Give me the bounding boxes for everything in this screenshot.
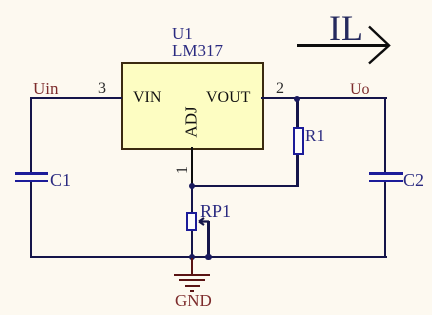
pin label VIN bbox=[133, 90, 161, 106]
capacitor C2 top plate bbox=[369, 172, 403, 175]
wire: bottom rail bbox=[30, 256, 387, 259]
label R1 bbox=[305, 127, 325, 144]
IL current label bbox=[329, 10, 363, 46]
resistor R1 bbox=[293, 127, 304, 155]
value label LM317 bbox=[172, 42, 223, 59]
label U1 bbox=[172, 25, 193, 42]
op-amp U1 (LM317 regulator body) bbox=[121, 62, 264, 150]
node Uo label bbox=[350, 82, 370, 98]
wiper arrow of RP1 bbox=[195, 214, 213, 226]
potentiometer RP1 body bbox=[186, 212, 197, 231]
ground bar 1 bbox=[174, 274, 211, 276]
pin wire: ADJ pin from IC down to node bbox=[191, 147, 193, 186]
junction dot at pin 2 bbox=[294, 96, 300, 102]
wire: right vertical (Uo down to C2) bbox=[384, 97, 386, 173]
junction dot rail right (wiper) bbox=[205, 254, 211, 260]
ground bar 4 bbox=[190, 290, 194, 292]
pin label VOUT bbox=[206, 90, 250, 106]
junction dot at ADJ node bbox=[189, 183, 195, 189]
node Uin label bbox=[33, 80, 59, 97]
pin number 3 bbox=[98, 81, 106, 97]
IL arrow head bbox=[366, 24, 392, 66]
wire: C2 bottom to rail bbox=[384, 182, 386, 257]
ground bar 2 bbox=[179, 279, 206, 281]
capacitor C1 bottom plate bbox=[15, 180, 49, 183]
wire: left vertical (Uin down to C1 top) bbox=[30, 97, 32, 173]
wire: wiper down to rail bbox=[207, 221, 209, 257]
capacitor C2 bottom plate bbox=[369, 180, 403, 183]
pin label ADJ (rotated) bbox=[182, 106, 199, 137]
wire: Uin to pin 3 bbox=[30, 97, 122, 99]
label RP1 bbox=[200, 202, 231, 220]
wire: pin2 junction down to R1 bbox=[296, 98, 298, 128]
wire: C1 bottom to rail bbox=[30, 182, 32, 257]
wire: horizontal from R1 bottom to ADJ node bbox=[191, 185, 299, 187]
wire: RP1 bottom to rail bbox=[191, 231, 193, 257]
wire: ADJ node down to RP1 bbox=[191, 186, 193, 213]
pin number 2 bbox=[276, 81, 284, 97]
pin number 1 (rotated) bbox=[175, 166, 191, 174]
ground bar 3 bbox=[185, 285, 200, 287]
label C2 bbox=[403, 171, 424, 189]
IL arrow shaft bbox=[297, 44, 389, 46]
junction dot rail left (RP1 bottom) bbox=[189, 254, 195, 260]
label C1 bbox=[50, 171, 71, 189]
capacitor C1 top plate bbox=[15, 172, 49, 175]
ground label GND bbox=[175, 292, 212, 309]
ground symbol stub bbox=[191, 258, 193, 275]
wire: pin 2 to Uo corner bbox=[261, 97, 387, 99]
wire: R1 bottom down bbox=[296, 155, 298, 187]
